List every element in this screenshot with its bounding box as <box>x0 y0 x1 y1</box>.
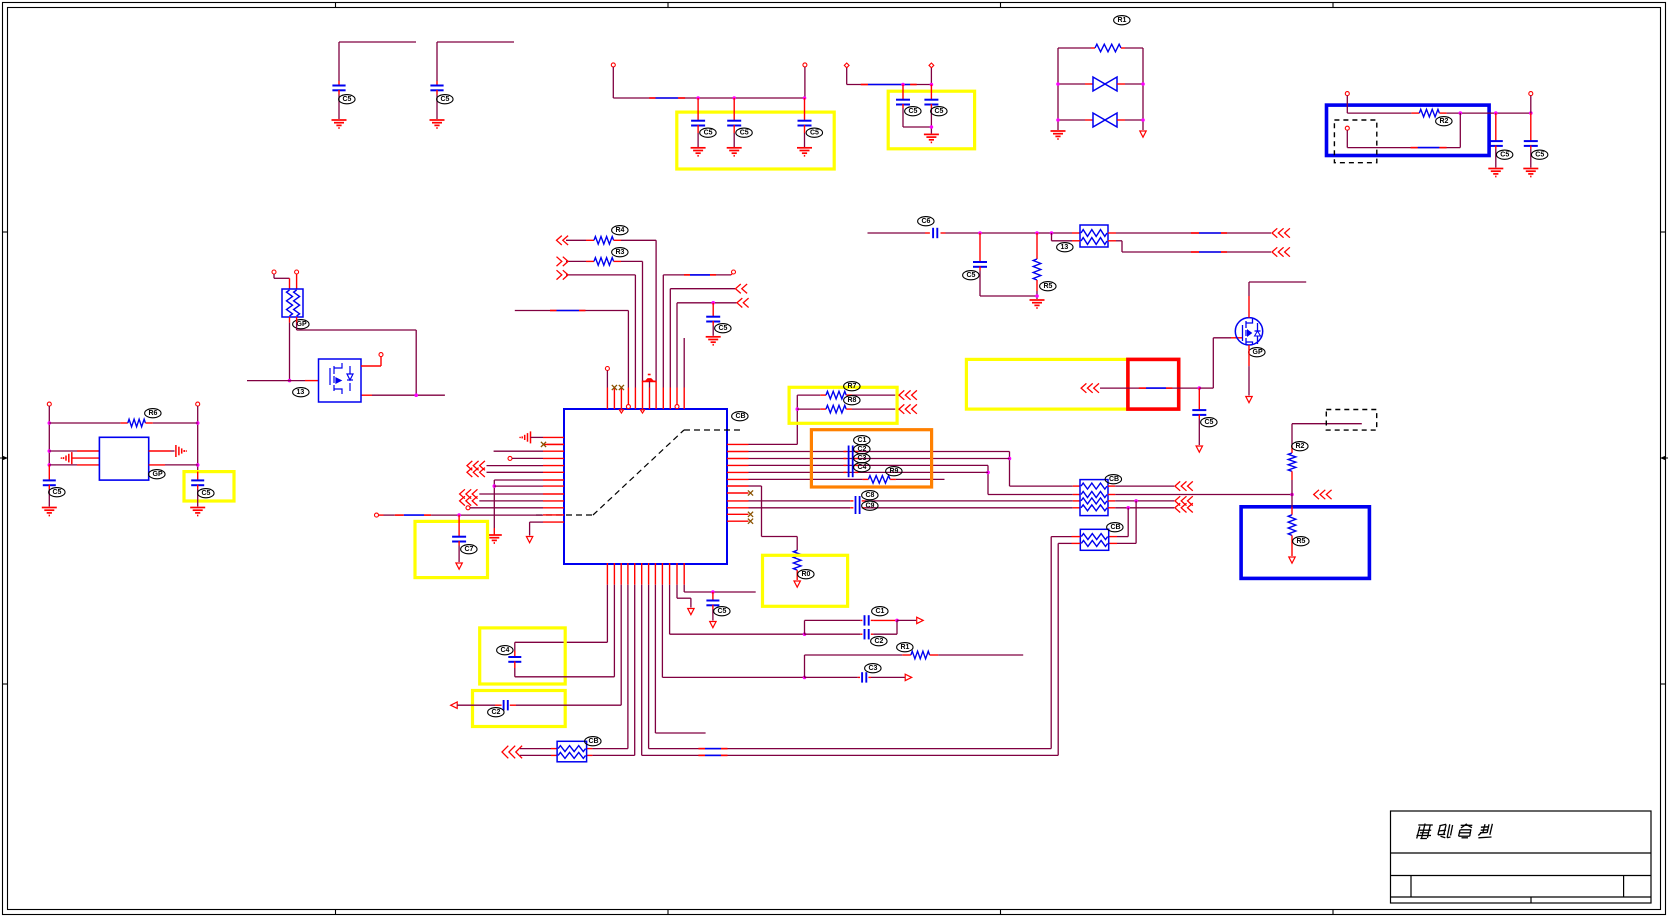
svg-text:R2: R2 <box>1440 118 1449 125</box>
svg-text:R8: R8 <box>848 397 857 404</box>
svg-text:C8: C8 <box>866 492 875 499</box>
svg-text:GP: GP <box>297 321 307 328</box>
svg-text:C4: C4 <box>858 464 867 471</box>
svg-text:GP: GP <box>1253 349 1263 356</box>
svg-text:C5: C5 <box>719 325 728 332</box>
svg-text:C1: C1 <box>858 437 867 444</box>
svg-text:C3: C3 <box>869 665 878 672</box>
svg-text:R2: R2 <box>1296 443 1305 450</box>
svg-text:R9: R9 <box>890 468 899 475</box>
svg-text:CB: CB <box>589 738 599 745</box>
svg-text:C6: C6 <box>922 218 931 225</box>
svg-text:C7: C7 <box>465 546 474 553</box>
svg-text:C5: C5 <box>704 130 713 137</box>
svg-text:R5: R5 <box>1044 283 1053 290</box>
svg-text:C5: C5 <box>967 272 976 279</box>
svg-text:13: 13 <box>1061 244 1069 251</box>
svg-text:13: 13 <box>297 389 305 396</box>
svg-text:R6: R6 <box>149 410 158 417</box>
svg-text:R3: R3 <box>616 249 625 256</box>
svg-text:C5: C5 <box>53 489 62 496</box>
svg-text:C1: C1 <box>876 608 885 615</box>
svg-text:R1: R1 <box>901 644 910 651</box>
svg-text:C2: C2 <box>492 709 501 716</box>
svg-text:C5: C5 <box>1500 152 1509 159</box>
svg-text:C5: C5 <box>740 130 749 137</box>
svg-text:C5: C5 <box>718 608 727 615</box>
svg-text:C3: C3 <box>858 455 867 462</box>
svg-text:C9: C9 <box>866 503 875 510</box>
svg-text:C5: C5 <box>202 490 211 497</box>
svg-text:C5: C5 <box>810 130 819 137</box>
svg-text:C5: C5 <box>441 96 450 103</box>
svg-text:C4: C4 <box>501 647 510 654</box>
svg-text:C2: C2 <box>875 638 884 645</box>
svg-text:CB: CB <box>1109 476 1119 483</box>
svg-text:R0: R0 <box>802 571 811 578</box>
svg-text:C5: C5 <box>935 108 944 115</box>
svg-text:GP: GP <box>153 471 163 478</box>
svg-text:C2: C2 <box>858 446 867 453</box>
svg-text:C5: C5 <box>343 96 352 103</box>
svg-text:C5: C5 <box>1205 419 1214 426</box>
svg-text:R1: R1 <box>1118 17 1127 24</box>
svg-text:CB: CB <box>1111 524 1121 531</box>
svg-text:C5: C5 <box>1535 152 1544 159</box>
svg-text:R5: R5 <box>1297 538 1306 545</box>
svg-text:R4: R4 <box>616 227 625 234</box>
svg-text:C5: C5 <box>909 108 918 115</box>
svg-text:CB: CB <box>736 413 746 420</box>
svg-text:R7: R7 <box>848 383 857 390</box>
